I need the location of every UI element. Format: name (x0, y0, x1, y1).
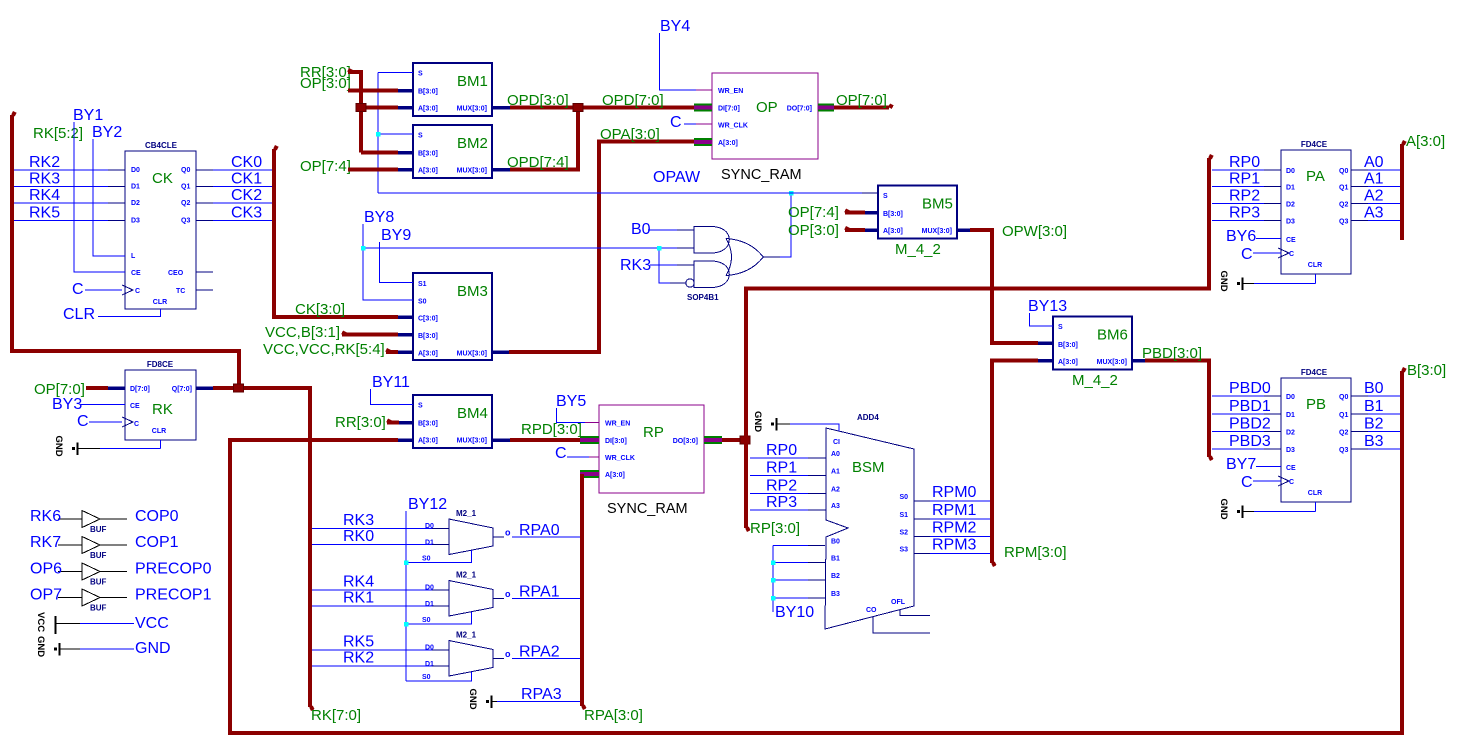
junction BM2 S (376, 132, 381, 137)
svg-text:OPD[3:0]: OPD[3:0] (507, 92, 569, 109)
svg-text:D1: D1 (131, 184, 140, 191)
svg-text:B3: B3 (831, 591, 840, 598)
wire RPM1 (930, 518, 990, 520)
wire RP1 (1212, 186, 1264, 188)
svg-text:B0: B0 (1364, 380, 1384, 397)
svg-text:OPA[3:0]: OPA[3:0] (600, 126, 660, 143)
wire buffer to COP0 (100, 518, 127, 520)
svg-text:Q3: Q3 (181, 218, 190, 225)
junction BY12 S0 second (404, 622, 409, 627)
svg-text:RK0: RK0 (343, 528, 374, 545)
svg-text:S: S (418, 403, 423, 410)
svg-text:A3: A3 (1364, 205, 1384, 222)
wire B3 (1351, 448, 1368, 450)
svg-text:B[3:0]: B[3:0] (418, 151, 438, 158)
mux BM1 (M_4_2) (413, 63, 492, 116)
svg-text:WR_CLK: WR_CLK (718, 123, 748, 130)
svg-text:C: C (1241, 474, 1253, 491)
svg-text:S0: S0 (422, 617, 431, 624)
svg-text:CO: CO (866, 607, 877, 614)
wire A3 (1351, 220, 1368, 222)
svg-text:RK[5:2]: RK[5:2] (33, 125, 83, 142)
svg-text:S: S (883, 193, 888, 200)
bus OP[3:0] to BM5 (845, 228, 865, 232)
svg-text:RPD[3:0]: RPD[3:0] (521, 421, 582, 438)
adder BSM (ADD4) (825, 428, 914, 629)
svg-text:MUX[3:0]: MUX[3:0] (457, 351, 487, 358)
svg-text:B[3:0]: B[3:0] (1407, 362, 1446, 379)
svg-text:S: S (418, 133, 423, 140)
svg-text:RK[7:0]: RK[7:0] (311, 707, 361, 724)
wire C to OP WR_CLK (684, 123, 696, 125)
wire PBD1 (1212, 413, 1264, 415)
svg-text:D1: D1 (425, 601, 434, 608)
wire RK4 (14, 202, 108, 204)
svg-text:S0: S0 (422, 556, 431, 563)
svg-text:A3: A3 (831, 503, 840, 510)
svg-text:RP2: RP2 (1229, 188, 1260, 205)
bus VCC,VCC,RK[5:4] to BM3 A (386, 350, 398, 354)
svg-text:BY3: BY3 (52, 396, 82, 413)
svg-text:WR_EN: WR_EN (718, 88, 743, 95)
bus RPM[3:0] to BM6 A (992, 361, 1038, 564)
svg-text:Q3: Q3 (1339, 219, 1348, 226)
wire RP0 (1212, 169, 1264, 171)
register PB (FD4CE) (1281, 378, 1351, 502)
bus OP[3:0] to BM1 B (348, 89, 398, 93)
svg-text:BM4: BM4 (457, 405, 488, 422)
svg-text:B1: B1 (831, 556, 840, 563)
svg-text:RPA1: RPA1 (519, 584, 560, 601)
svg-text:o: o (505, 589, 511, 599)
svg-text:D2: D2 (1286, 202, 1295, 209)
pin stub OP DI (694, 104, 712, 112)
svg-text:D3: D3 (1286, 447, 1295, 454)
wire BY8 to BM3 S0 (363, 224, 413, 300)
wire CEO stub (196, 271, 213, 273)
svg-text:D0: D0 (1286, 168, 1295, 175)
svg-text:B0: B0 (631, 221, 651, 238)
svg-text:BY5: BY5 (556, 393, 586, 410)
svg-text:CE: CE (131, 270, 141, 277)
wire RPA1 (493, 598, 504, 600)
wire CK3 (196, 220, 213, 222)
wire RK5 (14, 220, 108, 222)
svg-text:B[3:0]: B[3:0] (1058, 342, 1078, 349)
svg-text:A[3:0]: A[3:0] (883, 228, 903, 235)
svg-text:B2: B2 (1364, 416, 1384, 433)
svg-text:OP6: OP6 (30, 561, 62, 578)
svg-text:Q0: Q0 (181, 167, 190, 174)
svg-text:RK3: RK3 (620, 257, 651, 274)
svg-text:RPA[3:0]: RPA[3:0] (584, 707, 643, 724)
svg-text:BY13: BY13 (1028, 298, 1067, 315)
gate SOP4B1 OR output stage (726, 239, 763, 276)
svg-text:Q2: Q2 (1339, 202, 1348, 209)
wire C to RP WR_CLK (567, 456, 589, 458)
mux BM3 (M_8_4_2) (413, 273, 492, 360)
svg-text:C: C (72, 281, 84, 298)
svg-text:RP2: RP2 (766, 478, 797, 495)
wire CK0 (196, 169, 213, 171)
svg-text:CI: CI (833, 439, 840, 446)
svg-text:GND: GND (1218, 499, 1229, 520)
svg-text:RP3: RP3 (766, 494, 797, 511)
wire PBD0 (1212, 395, 1264, 397)
svg-text:MUX[3:0]: MUX[3:0] (1097, 359, 1127, 366)
buffer BUF PRECOP1 (82, 589, 100, 606)
svg-text:CK0: CK0 (231, 154, 262, 171)
wire PBD3 (1212, 448, 1264, 450)
svg-text:RPM1: RPM1 (932, 502, 977, 519)
pin stub OP A (694, 138, 712, 146)
wire RPM2 (930, 536, 990, 538)
wire OPAW (378, 192, 862, 194)
svg-text:CE: CE (130, 403, 140, 410)
svg-text:MUX[3:0]: MUX[3:0] (922, 228, 952, 235)
svg-text:D1: D1 (1286, 412, 1295, 419)
wire B0 to AND input (648, 229, 677, 231)
bus B loop to BM4 A (230, 371, 1402, 733)
svg-text:RPA2: RPA2 (519, 644, 560, 661)
svg-text:RK1: RK1 (343, 590, 374, 607)
svg-text:M2_1: M2_1 (456, 571, 477, 580)
svg-text:BM2: BM2 (457, 135, 488, 152)
svg-text:D2: D2 (131, 200, 140, 207)
wire RK3 (312, 528, 432, 530)
bus RP DO to RP bus (722, 438, 746, 442)
svg-text:C: C (134, 421, 139, 428)
svg-text:o: o (505, 649, 511, 659)
wire A0 (1351, 169, 1368, 171)
svg-text:SOP4B1: SOP4B1 (687, 293, 719, 302)
svg-text:C: C (670, 114, 682, 131)
svg-text:A1: A1 (831, 469, 840, 476)
svg-text:A[3:0]: A[3:0] (605, 472, 625, 479)
svg-text:PBD2: PBD2 (1229, 416, 1271, 433)
wire OPAW riser to BM1 BM2 select (377, 73, 379, 194)
wire BY11 to BM4 S (371, 389, 414, 405)
svg-text:C: C (135, 288, 140, 295)
svg-text:MUX[3:0]: MUX[3:0] (457, 106, 487, 113)
svg-text:WR_CLK: WR_CLK (605, 455, 635, 462)
bus OPD[7:4] from BM2 (492, 168, 510, 172)
svg-text:RK4: RK4 (343, 574, 374, 591)
svg-text:D3: D3 (131, 218, 140, 225)
svg-text:A2: A2 (1364, 188, 1384, 205)
svg-text:OP[3:0]: OP[3:0] (788, 222, 839, 239)
svg-text:M2_1: M2_1 (456, 631, 477, 640)
junction RK bus (234, 384, 244, 392)
mux M2_1 RPA0 (449, 519, 493, 555)
svg-text:S3: S3 (899, 547, 908, 554)
wire S0 of RPA2 (406, 672, 472, 681)
svg-text:BY6: BY6 (1226, 228, 1256, 245)
wire RK5 (312, 649, 432, 651)
wire RK0 (312, 544, 432, 546)
bus PBD[3:0] from BM6 (1132, 359, 1145, 363)
wire CK2 (196, 202, 213, 204)
svg-text:A2: A2 (831, 487, 840, 494)
wire B1 (1351, 413, 1368, 415)
junction OPAW riser (789, 191, 794, 196)
svg-text:OP[7:0]: OP[7:0] (836, 92, 887, 109)
bus RPD[3:0] from BM4 to RP DI (493, 438, 510, 442)
junction B2 (771, 578, 776, 583)
svg-text:CE: CE (1286, 465, 1296, 472)
svg-text:S: S (418, 71, 423, 78)
pin stub RP DI (580, 436, 599, 444)
buffer BUF PRECOP0 (82, 563, 100, 580)
svg-text:BY7: BY7 (1226, 456, 1256, 473)
bus RR[3:0] riser (348, 72, 361, 153)
bus OPA[3:0] from BM3 to OP address (492, 350, 509, 354)
svg-text:FD8CE: FD8CE (147, 360, 174, 369)
svg-text:RP0: RP0 (766, 442, 797, 459)
svg-text:BM1: BM1 (457, 73, 488, 90)
svg-text:A[3:0]: A[3:0] (1058, 359, 1078, 366)
svg-text:RP0: RP0 (1229, 154, 1260, 171)
junction RR bus at BM1 A (356, 104, 366, 112)
svg-text:CLR: CLR (63, 306, 95, 323)
wire RPM3 (930, 553, 990, 555)
wire RPA0 (493, 536, 504, 538)
svg-text:RPM0: RPM0 (932, 484, 977, 501)
wire RK3 to AND2B1 (650, 264, 677, 266)
mux BM4 (M_4_2) (413, 395, 492, 448)
junction RP DO (740, 436, 750, 444)
svg-text:RK5: RK5 (29, 205, 60, 222)
svg-text:BY4: BY4 (660, 18, 690, 35)
svg-text:CK[3:0]: CK[3:0] (295, 301, 345, 318)
wire CLR to CK (98, 309, 161, 317)
junction B3 (771, 596, 776, 601)
pin stub RP DO (704, 436, 722, 444)
svg-text:Q1: Q1 (181, 184, 190, 191)
ram OP (SYNC_RAM) (712, 73, 818, 159)
svg-text:RK3: RK3 (343, 512, 374, 529)
svg-text:A[3:0]: A[3:0] (418, 351, 438, 358)
mux M2_1 RPA2 (449, 641, 493, 677)
gate SOP4B1 AND2 top (694, 227, 729, 254)
svg-text:Q2: Q2 (1339, 430, 1348, 437)
svg-text:RP3: RP3 (1229, 205, 1260, 222)
svg-text:RPM2: RPM2 (932, 520, 977, 537)
svg-text:OP: OP (756, 99, 778, 116)
svg-text:D1: D1 (425, 540, 434, 547)
svg-text:A[3:0]: A[3:0] (418, 106, 438, 113)
svg-text:RK7: RK7 (30, 534, 61, 551)
svg-text:D0: D0 (131, 167, 140, 174)
wire S0 of RPA0 (406, 550, 472, 562)
svg-text:RK2: RK2 (343, 650, 374, 667)
mux BM5 (M_4_2) (878, 186, 957, 239)
svg-text:Q0: Q0 (1339, 168, 1348, 175)
svg-text:B[3:0]: B[3:0] (418, 89, 438, 96)
svg-text:BUF: BUF (90, 578, 107, 587)
wire RK6 to buffer (58, 518, 82, 520)
wire RP3 (750, 509, 808, 511)
wire RK1 (312, 605, 432, 607)
svg-text:RPM3: RPM3 (932, 537, 977, 554)
svg-text:VCC: VCC (135, 615, 169, 632)
svg-text:S0: S0 (899, 494, 908, 501)
svg-text:C: C (555, 445, 567, 462)
wire RK3 (14, 186, 108, 188)
svg-text:GND: GND (35, 636, 46, 657)
svg-text:BM5: BM5 (922, 196, 953, 213)
wire C to PB (1253, 480, 1281, 482)
svg-text:PRECOP0: PRECOP0 (135, 561, 212, 578)
wire PBD2 (1212, 431, 1264, 433)
svg-text:BY10: BY10 (775, 604, 814, 621)
svg-text:D[7:0]: D[7:0] (130, 386, 150, 393)
bus RK[5:2] vertical left (12, 115, 239, 388)
svg-text:CK2: CK2 (231, 187, 262, 204)
wire PA CLR (1315, 274, 1317, 284)
svg-text:DI[7:0]: DI[7:0] (718, 106, 740, 113)
svg-text:S1: S1 (418, 281, 427, 288)
wire BY2 to CK L (93, 139, 125, 256)
svg-text:Q3: Q3 (1339, 447, 1348, 454)
svg-text:M2_1: M2_1 (456, 509, 477, 518)
svg-text:OP[3:0]: OP[3:0] (300, 75, 351, 92)
mux BM2 (M_4_2) (413, 125, 492, 178)
svg-text:DO[7:0]: DO[7:0] (787, 106, 812, 113)
mux M2_1 RPA1 (449, 581, 493, 617)
svg-text:Q1: Q1 (1339, 412, 1348, 419)
svg-text:A[3:0]: A[3:0] (1406, 133, 1445, 150)
svg-text:CK3: CK3 (231, 205, 262, 222)
svg-text:D1: D1 (1286, 185, 1295, 192)
svg-text:MUX[3:0]: MUX[3:0] (457, 438, 487, 445)
svg-text:FD4CE: FD4CE (1301, 368, 1328, 377)
svg-text:VCC,B[3:1]: VCC,B[3:1] (265, 324, 340, 341)
svg-text:RK5: RK5 (343, 634, 374, 651)
svg-text:B[3:0]: B[3:0] (883, 211, 903, 218)
wire buffer to COP1 (100, 544, 127, 546)
bus RP[3:0] / PA feed (746, 158, 1209, 528)
svg-text:B0: B0 (831, 539, 840, 546)
svg-text:B[3:0]: B[3:0] (418, 333, 438, 340)
wire BY12 to mux selects (405, 511, 407, 681)
bus OPD[3:0] from BM1 (492, 106, 510, 110)
gate SOP4B1 AND2B1 bottom (694, 261, 729, 288)
svg-text:C: C (1289, 479, 1294, 486)
svg-text:OPW[3:0]: OPW[3:0] (1002, 223, 1067, 240)
wire BY3 to RK CE (81, 404, 125, 406)
svg-text:C: C (1241, 246, 1253, 263)
svg-text:OP[7:4]: OP[7:4] (300, 158, 351, 175)
svg-text:VCC,VCC,RK[5:4]: VCC,VCC,RK[5:4] (263, 341, 385, 358)
svg-text:RP[3:0]: RP[3:0] (750, 520, 800, 537)
svg-text:RPA0: RPA0 (519, 522, 560, 539)
svg-text:Q0: Q0 (1339, 394, 1348, 401)
bus OP[7:0] to RK D (86, 386, 108, 390)
svg-text:GND: GND (135, 640, 171, 657)
wire PB CLR (1315, 502, 1317, 512)
svg-text:DO[3:0]: DO[3:0] (673, 438, 698, 445)
wire BY4 to OP WR_EN (660, 33, 697, 90)
svg-text:CE: CE (1286, 237, 1296, 244)
svg-text:BUF: BUF (90, 551, 107, 560)
svg-text:DI[3:0]: DI[3:0] (605, 438, 627, 445)
svg-text:A[3:0]: A[3:0] (418, 168, 438, 175)
svg-text:PA: PA (1306, 168, 1325, 185)
buffer BUF COP0 (82, 511, 100, 528)
svg-text:SYNC_RAM: SYNC_RAM (721, 167, 802, 183)
wire RP2 (750, 493, 808, 495)
svg-text:RP1: RP1 (1229, 171, 1260, 188)
svg-text:RK2: RK2 (29, 154, 60, 171)
svg-text:CK1: CK1 (231, 171, 262, 188)
wire B0 (1351, 395, 1368, 397)
svg-text:S0: S0 (418, 299, 427, 306)
wire RP3 (1212, 220, 1264, 222)
wire buffer to PRECOP1 (100, 597, 127, 599)
wire RP0 (750, 457, 808, 459)
svg-text:MUX[3:0]: MUX[3:0] (457, 168, 487, 175)
svg-text:BY12: BY12 (408, 496, 447, 513)
svg-text:RK3: RK3 (29, 171, 60, 188)
register PA (FD4CE) (1281, 150, 1351, 274)
wire A2 (1351, 203, 1368, 205)
svg-text:BY9: BY9 (381, 227, 411, 244)
svg-text:RK4: RK4 (29, 187, 60, 204)
svg-text:B1: B1 (1364, 398, 1384, 415)
junction BY12 S0 first (404, 561, 409, 566)
bus OP[7:4] to BM5 (845, 211, 865, 215)
svg-text:RPA3: RPA3 (521, 686, 562, 703)
wire B2 (1351, 431, 1368, 433)
svg-text:PBD0: PBD0 (1229, 380, 1271, 397)
register RK (FD8CE) (125, 370, 196, 440)
wire RPM0 (930, 500, 990, 502)
svg-text:B[3:0]: B[3:0] (418, 421, 438, 428)
wire TC stub (196, 289, 213, 291)
svg-text:B3: B3 (1364, 433, 1384, 450)
svg-text:B2: B2 (831, 573, 840, 580)
svg-text:A1: A1 (1364, 171, 1384, 188)
svg-text:Q2: Q2 (181, 200, 190, 207)
svg-text:RP1: RP1 (766, 460, 797, 477)
svg-text:GND: GND (752, 411, 763, 432)
svg-text:L: L (131, 253, 136, 260)
svg-text:S2: S2 (899, 530, 908, 537)
svg-text:D0: D0 (1286, 394, 1295, 401)
svg-text:GND: GND (467, 689, 478, 710)
svg-text:D2: D2 (1286, 430, 1295, 437)
svg-text:VCC: VCC (35, 612, 46, 632)
svg-text:RK: RK (152, 401, 173, 418)
bus OP[7:4] to BM2 A (348, 168, 398, 172)
wire RK2 (14, 169, 108, 171)
svg-text:BY11: BY11 (372, 374, 410, 391)
mux BM6 (M_4_2) (1053, 317, 1132, 370)
svg-text:A[3:0]: A[3:0] (718, 140, 738, 147)
svg-text:PBD3: PBD3 (1229, 433, 1271, 450)
bus OPW[3:0] from BM5 to BM6 B (957, 228, 970, 232)
wire BY1 to CK CE (74, 122, 125, 272)
svg-text:PBD1: PBD1 (1229, 398, 1271, 415)
wire CK1 (196, 186, 213, 188)
svg-text:BY1: BY1 (73, 107, 103, 124)
bus CK[3:0] (274, 149, 398, 317)
wire BY8 net to AND inputs (363, 247, 677, 249)
bus VCC,B[3:1] to BM3 B (342, 333, 398, 337)
counter CK (CB4CLE) (125, 151, 196, 309)
svg-text:BM6: BM6 (1097, 327, 1128, 344)
